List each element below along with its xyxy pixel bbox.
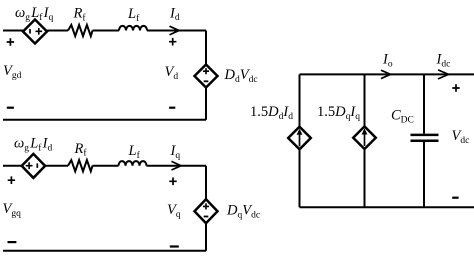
svg-text:Lf: Lf <box>127 6 140 24</box>
dependent voltage source DdVdc (diamond, circuit 1) <box>195 65 218 88</box>
svg-text:ωgLfId: ωgLfId <box>14 136 52 154</box>
wire branch 1 upper <box>299 74 301 126</box>
polarity + of Vgq <box>8 176 15 184</box>
svg-text:Lf: Lf <box>128 143 141 161</box>
wire top-left stub circuit 2 <box>3 165 22 167</box>
polarity + of Vd <box>169 38 176 46</box>
svg-text:Idc: Idc <box>436 52 451 70</box>
wire capacitor branch lower <box>423 142 425 207</box>
svg-text:Rf: Rf <box>73 6 87 24</box>
polarity − of Vgd <box>7 107 14 109</box>
capacitor CDC <box>411 135 439 141</box>
wire right vertical lower circuit 2 <box>205 223 207 251</box>
svg-text:Rf: Rf <box>74 141 88 159</box>
dependent voltage source ωgLfIq (diamond, circuit 1) <box>23 20 47 44</box>
svg-text:1.5DdId: 1.5DdId <box>250 104 293 122</box>
svg-text:1.5DqIq: 1.5DqIq <box>317 104 360 122</box>
polarity + of Vdc <box>452 84 459 92</box>
wire resistor to inductor circuit 2 <box>93 165 119 167</box>
dependent voltage source ωgLfId (diamond, circuit 2) <box>22 154 45 178</box>
svg-text:Iq: Iq <box>170 143 181 161</box>
dependent voltage source DqVdc (diamond, circuit 2) <box>195 199 218 223</box>
wire bottom circuit 1 <box>3 119 206 121</box>
svg-text:Vdc: Vdc <box>452 128 470 146</box>
polarity − of Vq <box>170 245 179 247</box>
current arrow Idc <box>438 70 449 79</box>
wire bottom rail circuit 3 <box>300 206 474 208</box>
wire inductor to corner circuit 1 <box>147 30 206 32</box>
svg-text:Id: Id <box>169 5 180 23</box>
wire bottom circuit 2 <box>3 250 206 252</box>
resistor Rf circuit 1 <box>68 25 93 36</box>
wire capacitor branch upper <box>423 74 425 133</box>
current arrow Id <box>170 26 180 35</box>
polarity − of Vdc <box>452 197 458 199</box>
wire branch 2 upper <box>364 74 366 126</box>
wire branch 1 lower <box>299 149 301 207</box>
resistor Rf circuit 2 <box>68 160 93 171</box>
current arrow Iq <box>172 161 182 170</box>
svg-text:DdVdc: DdVdc <box>224 67 258 85</box>
wire right vertical upper circuit 2 <box>205 166 207 200</box>
dependent current source 1.5DqIq (diamond) <box>353 126 376 149</box>
polarity − of Vd <box>169 107 175 109</box>
polarity − of Vgq <box>8 241 17 243</box>
wire inductor to corner circuit 2 <box>147 165 207 167</box>
inductor Lf circuit 2 <box>119 161 147 166</box>
svg-text:Vgq: Vgq <box>3 201 22 219</box>
dependent current source 1.5DdId (diamond) <box>288 127 311 150</box>
svg-text:Io: Io <box>382 52 393 70</box>
wire right vertical upper circuit 1 <box>205 31 207 65</box>
wire top rail circuit 3 <box>300 73 474 75</box>
inductor Lf circuit 1 <box>119 26 147 31</box>
svg-text:Vq: Vq <box>167 202 181 220</box>
wire top-left stub circuit 1 <box>3 30 23 32</box>
svg-text:Vd: Vd <box>165 64 179 82</box>
current arrow Io <box>381 70 391 78</box>
polarity + of Vgd <box>7 38 14 46</box>
svg-text:DqVdc: DqVdc <box>226 202 260 220</box>
wire branch 2 lower <box>364 149 366 207</box>
wire right vertical lower circuit 1 <box>205 88 207 120</box>
wire diamond to resistor circuit 2 <box>45 165 68 167</box>
polarity + of Vq <box>169 178 176 186</box>
svg-text:CDC: CDC <box>391 108 414 126</box>
wire diamond to resistor circuit 1 <box>47 31 68 32</box>
svg-text:Vgd: Vgd <box>3 63 22 81</box>
wire resistor to inductor circuit 1 <box>93 30 120 32</box>
svg-text:ωgLfIq: ωgLfIq <box>15 5 53 23</box>
